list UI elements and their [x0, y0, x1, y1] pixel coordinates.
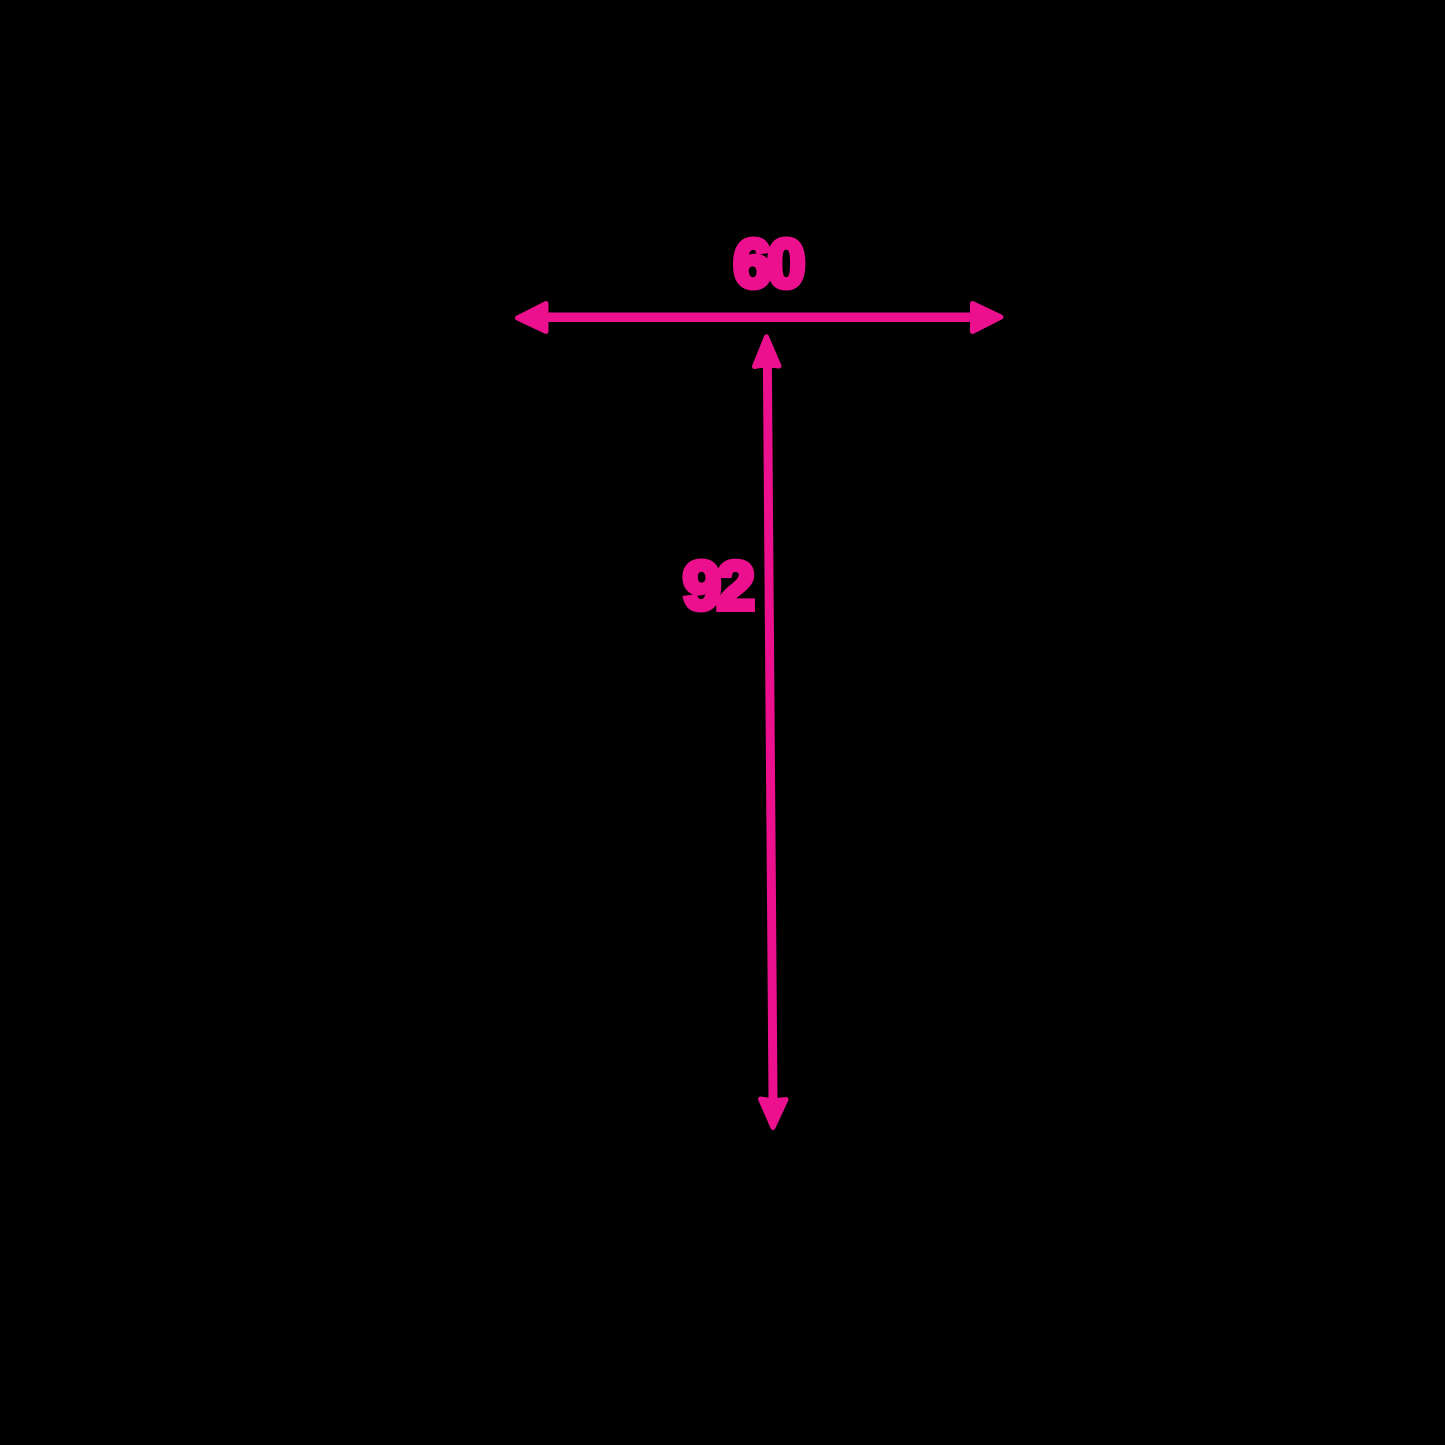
width arrow shaft [544, 312, 974, 322]
height arrow top head [755, 337, 780, 367]
width arrow left head [518, 304, 547, 332]
height arrow bottom head [761, 1099, 787, 1128]
height arrow shaft [767, 367, 773, 1098]
width arrow right head [973, 304, 1002, 332]
label 92 [683, 547, 751, 625]
label 60 [734, 225, 802, 303]
